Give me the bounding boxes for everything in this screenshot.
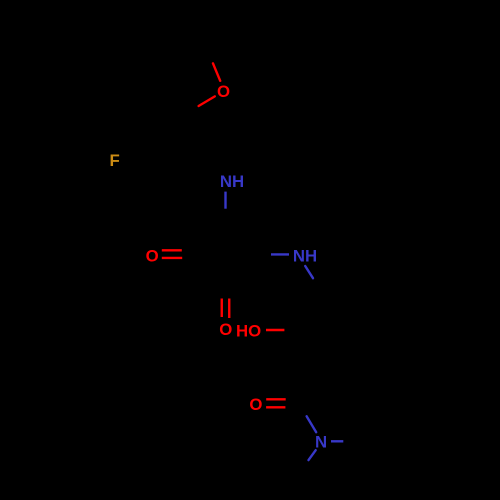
svg-text:N: N [315,433,327,452]
svg-text:F: F [109,151,119,170]
wire O1 lower-left bond half [199,96,215,106]
wire O5 double bond line 2 [266,406,285,408]
svg-text:O: O [217,82,230,101]
wire N3 lower-left bond half [309,450,316,460]
wire O5 double bond line 1 [266,398,286,400]
wire N1 downward bond half [224,192,226,209]
wire O3 double bond line 1 [221,299,223,318]
wire N3 upper-left bond half [307,416,317,432]
svg-text:O: O [219,320,232,339]
wire O2 double bond line 2 [162,257,182,259]
wire O1 upper bond half [213,63,220,80]
wire O2 double bond line 1 [162,249,182,251]
wire O4 right bond half [266,329,284,331]
svg-text:O: O [146,247,159,266]
svg-text:NH: NH [293,246,317,265]
wire N3 right bond half [331,440,343,442]
wire N2 left bond half [271,253,289,255]
svg-text:O: O [249,395,262,414]
svg-text:HO: HO [236,321,261,340]
wire O3 double bond line 2 [228,299,230,319]
svg-text:NH: NH [220,172,244,191]
wire N2 lower-right bond half [305,266,313,278]
